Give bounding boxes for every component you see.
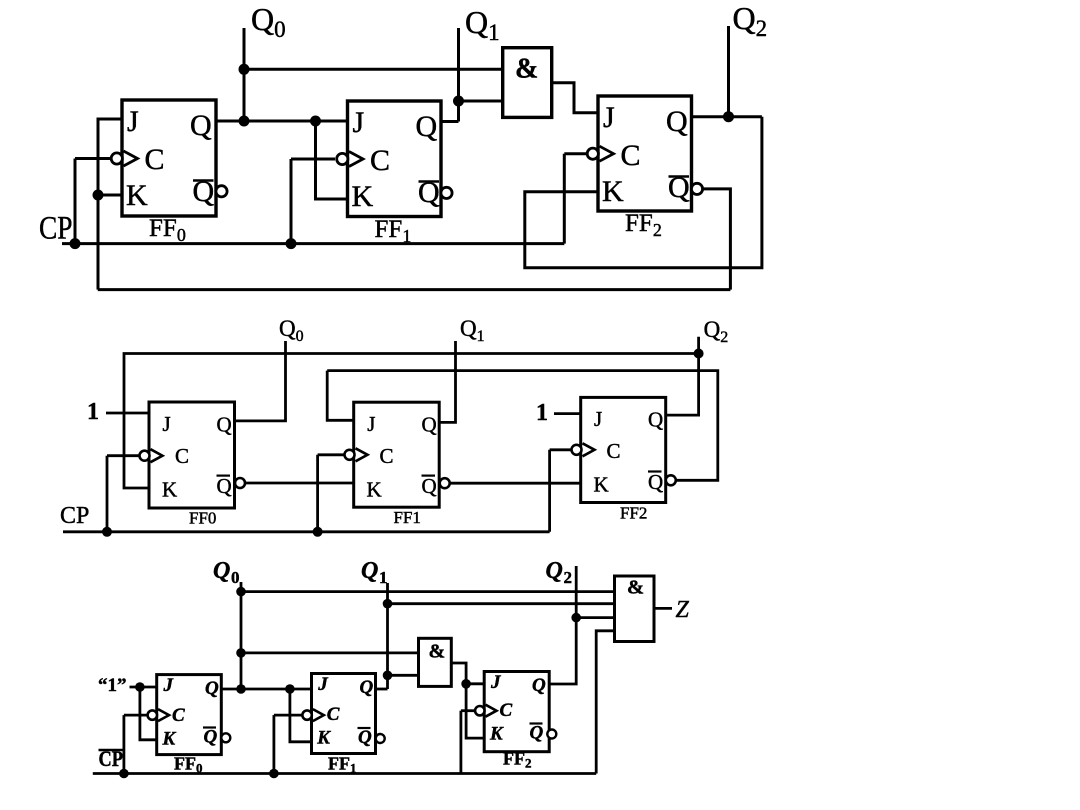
- wire Q2 to G3 input3: [576, 616, 614, 619]
- wire Q1 vertical circuit3: [386, 583, 389, 689]
- overline FF1 Qbar label: [419, 180, 440, 183]
- node FF0 CP junction circuit2: [102, 527, 112, 537]
- overline FF0 Qbar label: [193, 179, 214, 182]
- clock wedge FF1 circuit2: [356, 448, 368, 461]
- wire FF0 K input: [98, 194, 122, 197]
- wire Q1 to G3 input2: [388, 602, 615, 605]
- svg-text:K: K: [602, 175, 624, 208]
- wire FF2 J input circuit3: [466, 682, 484, 685]
- Qbar bubble FF2 circuit2: [666, 475, 676, 485]
- wire FF2 C drop to CP end: [563, 154, 566, 244]
- wire Q2 feedback top bus to FF0 K: [124, 354, 699, 489]
- wire FF0 C input: [107, 454, 140, 457]
- svg-text:C: C: [145, 143, 165, 176]
- Qbar bubble FF0: [216, 186, 227, 197]
- node FF0 Q junction: [239, 116, 250, 127]
- wire FF1 Q output circuit3: [376, 688, 388, 691]
- wire Z output: [654, 607, 672, 610]
- node Q1 line2 junction: [383, 599, 393, 609]
- clock wedge FF0: [124, 151, 138, 166]
- wire FF2 C input circuit3: [461, 709, 477, 712]
- svg-text:Q1: Q1: [460, 316, 485, 345]
- svg-text:FF0: FF0: [174, 754, 203, 776]
- node FF1 JK junction circuit3: [285, 684, 295, 694]
- svg-text:1: 1: [536, 400, 548, 426]
- Qbar bubble FF0 circuit2: [235, 478, 245, 488]
- clock wedge FF1: [349, 152, 363, 167]
- svg-text:J: J: [367, 412, 375, 436]
- svg-text:FF2: FF2: [620, 504, 647, 523]
- svg-text:Q: Q: [422, 474, 437, 498]
- clock bubble FF0 circuit3: [148, 710, 157, 719]
- wire Q0 vertical circuit3: [240, 582, 243, 689]
- wire FF2 C drop to CP end: [548, 450, 551, 532]
- svg-text:J: J: [594, 407, 602, 431]
- svg-text:FF1: FF1: [328, 754, 357, 776]
- flip-flop FF2 box circuit3: [484, 672, 549, 752]
- wire FF2 Q to Q2 stub: [666, 337, 699, 415]
- clock wedge FF0 circuit2: [151, 449, 163, 462]
- svg-text:J: J: [353, 106, 365, 139]
- wire input 1 to FF0 J circuit3: [130, 686, 157, 689]
- wire FF2 Q output: [692, 115, 762, 118]
- wire CP bus circuit2: [63, 530, 550, 533]
- svg-text:J: J: [127, 105, 139, 138]
- svg-text:Q2: Q2: [704, 317, 729, 346]
- clock bubble FF2: [587, 148, 598, 159]
- wire input 1 to FF0 J: [106, 412, 149, 415]
- wire FF0 Q to Q0 stub: [235, 341, 286, 421]
- and-gate G3 box circuit3: [615, 576, 655, 642]
- wire FF1 C drop to CP bus circuit3: [272, 715, 275, 773]
- svg-text:Q2: Q2: [733, 0, 768, 41]
- svg-text:J: J: [163, 675, 174, 696]
- svg-text:Q: Q: [193, 175, 215, 208]
- clock wedge FF0 circuit3: [158, 709, 169, 721]
- svg-text:1: 1: [379, 568, 388, 587]
- svg-text:Z: Z: [676, 597, 690, 623]
- node Q1-G1 junction: [453, 96, 464, 107]
- svg-text:C: C: [621, 139, 641, 172]
- svg-text:&: &: [627, 577, 644, 599]
- flip-flop FF1 box: [348, 101, 442, 217]
- wire CP bottom bus circuit3: [93, 772, 596, 775]
- svg-text:K: K: [489, 724, 504, 745]
- wire CP bus: [62, 242, 564, 245]
- svg-text:Q: Q: [217, 413, 232, 437]
- wire FF2 K input feedback: [525, 117, 762, 268]
- flip-flop FF1 box circuit2: [354, 402, 440, 507]
- Qbar bubble FF1 circuit3: [376, 734, 385, 743]
- svg-text:CP: CP: [39, 211, 73, 247]
- svg-text:K: K: [162, 478, 177, 502]
- flip-flop FF0 box circuit2: [149, 402, 235, 508]
- overline FF1 Qbar label circuit2: [422, 475, 436, 477]
- svg-text:FF1: FF1: [394, 508, 421, 527]
- svg-text:Q: Q: [648, 408, 663, 432]
- svg-text:Q: Q: [213, 558, 230, 584]
- node FF2 JK junction circuit3: [461, 679, 471, 689]
- svg-text:FF2: FF2: [625, 210, 662, 240]
- node Q0-G2 junction: [236, 648, 246, 658]
- wire FF0 J-K tie from bottom feedback: [98, 119, 122, 290]
- svg-text:Q: Q: [205, 678, 219, 699]
- svg-text:C: C: [175, 444, 189, 468]
- overline FF0 Qbar label circuit3: [203, 726, 216, 728]
- clock bubble FF0: [111, 153, 122, 164]
- wire G2 output to FF2 J and K: [451, 663, 484, 738]
- node Q0 line1 junction: [236, 587, 246, 597]
- svg-text:K: K: [316, 728, 331, 749]
- svg-text:J: J: [317, 674, 328, 695]
- wire FF0 C drop to CP: [74, 159, 77, 244]
- clock wedge FF2 circuit2: [583, 443, 595, 456]
- svg-text:FF1: FF1: [375, 216, 412, 246]
- svg-text:Q: Q: [416, 110, 438, 143]
- wire FF0 Q to FF1 J circuit3: [221, 688, 311, 691]
- svg-text:CP: CP: [60, 503, 89, 529]
- svg-text:Q: Q: [666, 105, 688, 138]
- wire bottom feedback Qbar2 to FF0: [98, 288, 731, 291]
- overline FF0 Qbar label circuit2: [217, 475, 231, 477]
- and-gate G1 box: [503, 48, 552, 118]
- svg-text:K: K: [594, 473, 609, 497]
- clock wedge FF2 circuit3: [486, 705, 497, 717]
- svg-text:C: C: [172, 705, 185, 726]
- wire FF1 C input: [318, 453, 345, 456]
- svg-text:K: K: [352, 180, 374, 213]
- svg-text:Q: Q: [361, 558, 378, 584]
- wire Q0 vertical: [243, 28, 246, 122]
- node Q2 top bus junction: [694, 349, 704, 359]
- wire FF0 Q to FF1 J: [216, 120, 348, 123]
- wire FF2 C input: [550, 448, 572, 451]
- wire FF1 C drop to CP: [290, 159, 293, 244]
- node FF1 CP junction circuit3: [269, 769, 279, 779]
- clock bubble FF2 circuit3: [475, 706, 484, 715]
- flip-flop FF1 box circuit3: [312, 674, 376, 754]
- svg-text:Q: Q: [204, 727, 218, 748]
- svg-text:0: 0: [231, 568, 240, 587]
- node FF0 CP junction circuit3: [119, 769, 129, 779]
- svg-text:Q: Q: [422, 413, 437, 437]
- wire FF0 C drop to CP bus circuit3: [123, 715, 126, 773]
- svg-text:J: J: [163, 412, 171, 436]
- svg-text:Q0: Q0: [279, 316, 304, 345]
- svg-text:1: 1: [87, 399, 99, 425]
- wire FF1 J-K tie circuit3: [290, 689, 312, 742]
- wire input 1 to FF2 J: [554, 412, 581, 415]
- svg-text:Q: Q: [668, 171, 690, 204]
- svg-text:Q0: Q0: [251, 1, 286, 42]
- node FF0 JK junction circuit3: [135, 682, 145, 692]
- wire FF0 C input circuit3: [124, 714, 149, 717]
- svg-text:C: C: [500, 700, 513, 721]
- svg-text:Q: Q: [358, 727, 372, 748]
- clock bubble FF1 circuit2: [345, 450, 355, 460]
- wire Q0 to G1 upper input: [244, 68, 503, 71]
- node FF2 Q junction: [723, 111, 734, 122]
- flip-flop FF2 box: [598, 96, 692, 211]
- wire FF0 C drop to CP: [106, 456, 109, 532]
- svg-text:&: &: [429, 641, 446, 663]
- svg-text:K: K: [126, 179, 148, 212]
- Qbar bubble FF1: [441, 187, 452, 198]
- wire Qbar2 to FF1 J bus: [327, 371, 718, 481]
- wire Q2 vertical: [727, 26, 730, 117]
- svg-text:&: &: [515, 54, 538, 85]
- overline FF2 Qbar label circuit3: [530, 722, 543, 724]
- svg-text:Q: Q: [418, 176, 440, 209]
- node Q2 line3 junction: [571, 613, 581, 623]
- wire FF0 J-K tie circuit3: [140, 687, 157, 740]
- svg-text:Q: Q: [546, 558, 563, 584]
- svg-text:J: J: [603, 101, 615, 134]
- node FF1 CP junction circuit2: [313, 527, 323, 537]
- node FF0 CP junction: [70, 238, 81, 249]
- svg-text:FF0: FF0: [189, 509, 216, 528]
- node FF0 Q junction circuit3: [236, 684, 246, 694]
- node FF1 JK junction: [310, 116, 321, 127]
- wire G1 output to FF2 J: [552, 83, 598, 113]
- node FF0 K junction: [93, 190, 104, 201]
- wire FF2 Q to Q2 vertical circuit3: [549, 566, 576, 684]
- svg-text:Q: Q: [532, 675, 546, 696]
- overline CP label circuit3: [99, 749, 124, 752]
- Qbar bubble FF2 circuit3: [547, 730, 556, 739]
- svg-text:Q: Q: [360, 677, 374, 698]
- svg-text:FF0: FF0: [149, 215, 186, 245]
- wire FF2 C drop to bottom bus: [459, 711, 462, 774]
- svg-text:K: K: [367, 478, 382, 502]
- clock bubble FF2 circuit2: [572, 445, 582, 455]
- svg-text:K: K: [162, 729, 177, 750]
- svg-text:Q: Q: [190, 109, 212, 142]
- wire FF2 Qbar output: [703, 189, 731, 290]
- svg-text:C: C: [380, 444, 394, 468]
- node Q1-G2 junction: [383, 671, 393, 681]
- wire FF1 J-K tie: [316, 121, 348, 199]
- wire FF2 C input: [564, 152, 587, 155]
- wire FF1 Q to Q1 stub: [439, 341, 455, 422]
- wire bottom bus riser to G3 input4: [596, 631, 614, 774]
- wire FF0 C input: [75, 157, 111, 160]
- overline FF2 Qbar label: [669, 175, 690, 178]
- svg-text:CP: CP: [99, 746, 124, 771]
- overline FF2 Qbar label circuit2: [648, 470, 662, 472]
- wire Q1 vertical: [457, 28, 460, 122]
- wire FF1 C drop to CP: [316, 455, 319, 532]
- svg-text:Q1: Q1: [465, 4, 500, 45]
- overline FF1 Qbar label circuit3: [358, 727, 371, 729]
- wire FF1 J input: [327, 371, 354, 421]
- svg-text:C: C: [607, 439, 621, 463]
- flip-flop FF2 box circuit2: [581, 397, 666, 502]
- svg-text:Q: Q: [648, 470, 663, 494]
- wire FF1 Qbar to FF2 K: [450, 482, 581, 485]
- Qbar bubble FF2: [691, 183, 702, 194]
- svg-text:C: C: [370, 144, 390, 177]
- node FF1 CP junction: [286, 238, 297, 249]
- clock wedge FF1 circuit3: [313, 709, 324, 721]
- svg-text:Q: Q: [530, 723, 544, 744]
- clock bubble FF1: [337, 153, 348, 164]
- wire FF1 Q output: [441, 120, 459, 123]
- wire Q1 to G1 lower input: [459, 100, 503, 103]
- svg-text:C: C: [327, 704, 340, 725]
- flip-flop FF0 box circuit3: [157, 675, 222, 755]
- wire Q0 to G3 input1: [241, 590, 615, 593]
- svg-text:“1”: “1”: [98, 675, 127, 696]
- Qbar bubble FF1 circuit2: [440, 478, 450, 488]
- and-gate G2 box circuit3: [419, 638, 452, 686]
- svg-text:2: 2: [564, 568, 573, 587]
- svg-text:J: J: [490, 672, 501, 693]
- wire FF0 Qbar to FF1 K: [246, 482, 354, 485]
- clock bubble FF1 circuit3: [302, 710, 311, 719]
- wire Q0 to G2 input1: [241, 652, 419, 655]
- clock bubble FF0 circuit2: [140, 451, 150, 461]
- Qbar bubble FF0 circuit3: [221, 733, 230, 742]
- clock wedge FF2: [600, 146, 614, 161]
- node Q0-G1 junction: [239, 64, 250, 75]
- svg-text:Q: Q: [217, 474, 232, 498]
- wire FF1 C input circuit3: [274, 714, 303, 717]
- wire Q1 to G2 input2: [388, 674, 419, 677]
- wire FF1 C input: [291, 158, 335, 161]
- flip-flop FF0 box: [122, 100, 216, 216]
